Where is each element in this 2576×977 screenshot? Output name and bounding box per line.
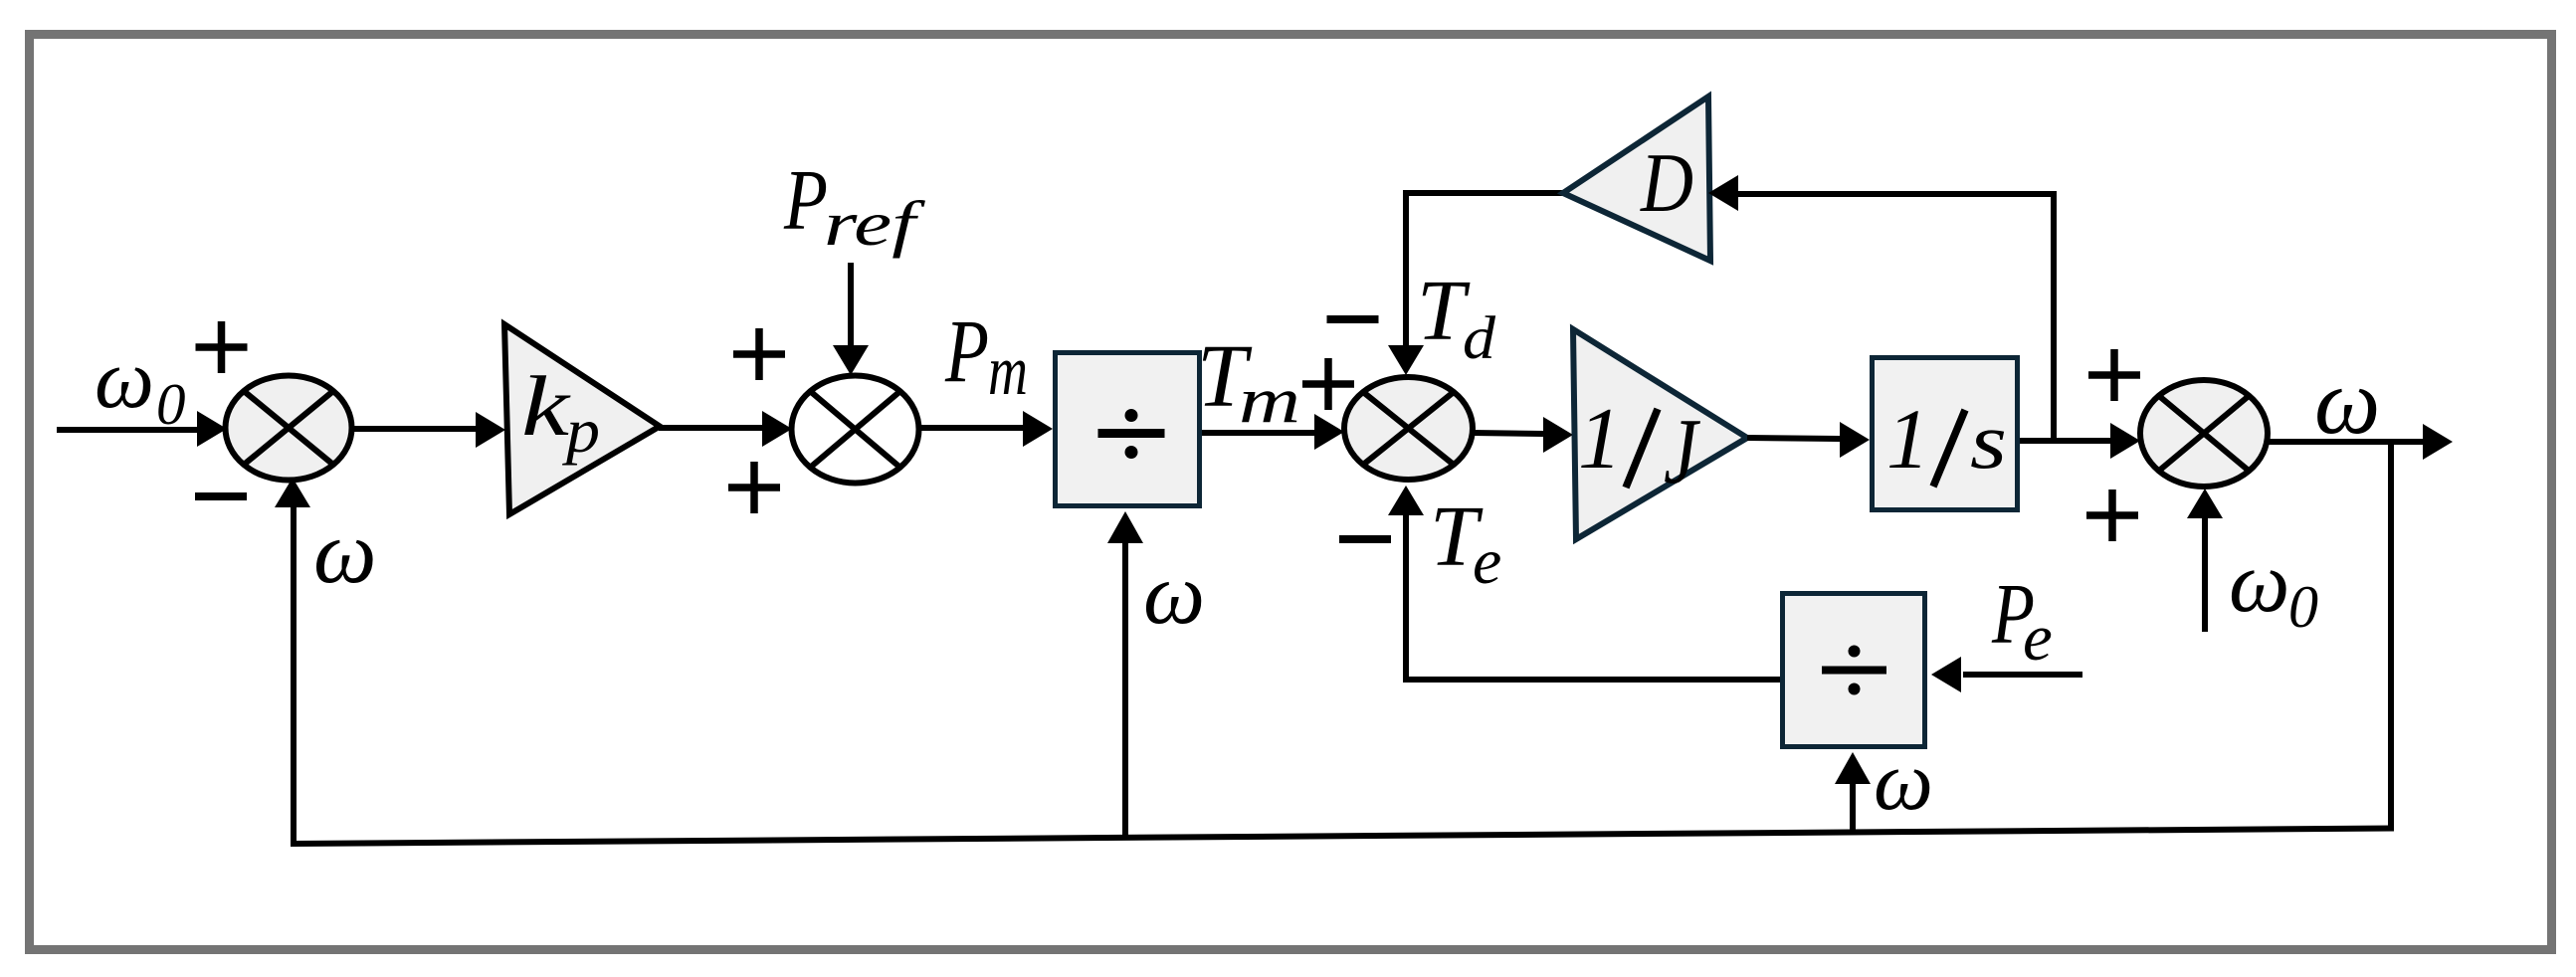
svg-text:m: m <box>1239 364 1300 437</box>
wire DIV1 to S3 <box>1202 414 1344 450</box>
svg-text:J: J <box>1664 400 1700 503</box>
wire Pref stub <box>833 263 869 375</box>
svg-text:ω: ω <box>2229 533 2289 630</box>
node Pe label <box>1991 565 2053 675</box>
wire S2 to DIV1 <box>918 411 1053 447</box>
node omega0 input label <box>95 332 186 437</box>
minus sign S3 bottom <box>1339 535 1391 543</box>
plus sign S4 top <box>2088 349 2140 401</box>
plus sign S1 <box>196 321 248 373</box>
plus sign S2 top <box>733 328 785 380</box>
wire D output to S3 <box>1388 190 1563 375</box>
wire omega0 stub into S4 <box>2187 488 2223 632</box>
svg-text:ω: ω <box>2314 350 2380 454</box>
svg-text:1: 1 <box>1578 391 1622 488</box>
summing junction S1 <box>226 376 352 481</box>
node omega output label <box>2314 350 2380 454</box>
summing junction S2 <box>792 376 919 484</box>
wire 1/s to S4 <box>2020 423 2140 459</box>
integrator block 1/s <box>1873 358 2018 510</box>
wire 1/J to 1/s <box>1747 422 1870 458</box>
wire omega to DIV2 <box>1835 752 1871 835</box>
svg-text:ω: ω <box>313 503 377 602</box>
svg-text:0: 0 <box>156 371 186 437</box>
wire DIV2 to S3 Te path <box>1388 486 1780 683</box>
node omega label near DIV1 <box>1143 546 1205 643</box>
svg-text:ω: ω <box>1143 546 1205 643</box>
svg-text:k: k <box>521 358 571 454</box>
node Pref label <box>783 151 926 259</box>
svg-text:P: P <box>783 151 828 248</box>
minus sign S3 top <box>1327 315 1379 323</box>
svg-text:P: P <box>944 302 989 401</box>
divider block DIV2 <box>1783 594 1925 747</box>
node Te label <box>1430 488 1501 598</box>
node omega label near DIV2 <box>1874 734 1933 828</box>
node Tm label <box>1197 327 1300 437</box>
svg-text:s: s <box>1970 398 2007 486</box>
plus sign S2 bottom <box>728 462 780 513</box>
node Pm label <box>944 302 1028 410</box>
wire S1 to kp <box>352 412 505 448</box>
svg-text:1: 1 <box>1886 391 1929 487</box>
svg-text:d: d <box>1463 305 1496 372</box>
plus sign S4 bottom <box>2086 489 2138 541</box>
gain kp <box>504 324 660 514</box>
svg-text:e: e <box>2023 601 2053 675</box>
svg-text:0: 0 <box>2288 574 2318 640</box>
node omega0 right label <box>2229 533 2318 640</box>
svg-text:e: e <box>1473 525 1501 598</box>
summing junction S4 <box>2140 380 2268 487</box>
svg-text:p: p <box>562 396 600 466</box>
node Td label <box>1417 262 1496 372</box>
plus sign S3 left <box>1302 358 1354 410</box>
svg-text:ref: ref <box>824 188 926 259</box>
wire output feedback bottom loop <box>275 442 2394 847</box>
wire kp to S2 <box>659 411 792 447</box>
wire omega to DIV1 <box>1107 511 1143 839</box>
gain 1/J <box>1573 329 1747 539</box>
gain D <box>1563 97 1710 261</box>
node omega feedback label under S1 <box>313 503 377 602</box>
wire S4 to output <box>2268 424 2453 460</box>
svg-text:ω: ω <box>95 332 154 426</box>
wire omega0 input <box>57 411 227 447</box>
divider block DIV1 <box>1056 353 1200 506</box>
svg-text:m: m <box>988 332 1028 410</box>
svg-text:D: D <box>1640 136 1693 230</box>
wire S3 to 1/J <box>1473 417 1573 453</box>
wire Pe stub into DIV2 <box>1931 657 2082 692</box>
summing junction S3 <box>1344 377 1473 480</box>
wire 1/s output feedback to D <box>1708 175 2057 441</box>
minus sign S1 <box>195 492 247 500</box>
